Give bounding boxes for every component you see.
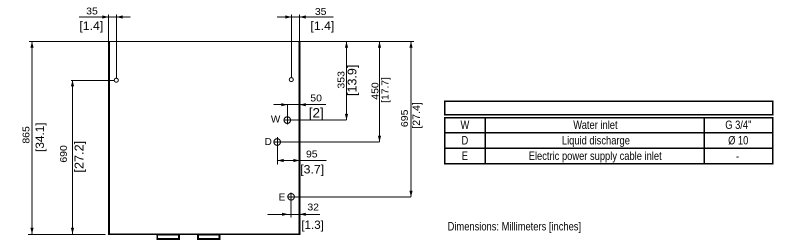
W inlet circle [284,117,291,124]
D inlet circle [274,139,281,146]
dim 690 connector [71,80,114,82]
dim 450 arrow bottom [378,136,381,142]
dim 35 left line [79,16,130,18]
svg-text:[13.9]: [13.9] [346,65,360,96]
svg-text:690: 690 [58,145,70,163]
dim 865 line [31,42,33,235]
dim 865 arrow bottom [30,228,33,234]
svg-text:Ø 10: Ø 10 [728,135,748,148]
dim 35 right arrow b [300,15,306,18]
dim 695 arrow top [409,42,412,48]
dim 865 arrow top [30,42,33,48]
dim 690 arrow bottom [71,228,74,234]
E inlet circle [288,194,295,201]
dim 95 arrow b [293,159,299,162]
dim 695 arrow bottom [409,191,412,197]
appliance left edge [108,41,110,235]
dim 35 left arrow b [117,15,123,18]
dim 50 line [274,104,327,106]
dim 353 arrow bottom [345,114,348,120]
dim 35 left arrow a [102,15,108,18]
svg-text:35: 35 [86,6,98,18]
dim 32 arrow a [282,213,288,216]
svg-text:[1.4]: [1.4] [79,19,103,33]
right cable inlet circle [289,78,293,82]
dim 450 line [379,42,381,143]
svg-text:D: D [462,135,469,148]
dim 32 line [268,213,320,215]
svg-text:[2]: [2] [309,105,324,120]
top extension line [29,41,414,43]
svg-text:Liquid discharge: Liquid discharge [562,135,630,148]
bottom-left extension line [28,234,106,236]
dim 50 arrow a [281,103,287,106]
dim 50 arrow b [300,103,306,106]
appliance bottom edge [108,233,301,235]
dim 353 arrow top [345,42,348,48]
W horizontal line [284,119,347,121]
svg-text:865: 865 [20,126,32,144]
dim 690 arrow top [71,80,74,86]
svg-text:E: E [279,192,286,203]
dim 95 line [277,160,326,162]
left cable line [116,14,118,78]
dim 353 line [346,42,348,121]
svg-text:[34.1]: [34.1] [33,122,47,152]
table column line 2 [703,118,705,164]
svg-text:E: E [462,150,468,163]
svg-text:Electric power supply cable in: Electric power supply cable inlet [529,150,662,163]
svg-text:Water inlet: Water inlet [573,119,617,132]
svg-text:[1.4]: [1.4] [310,19,334,33]
svg-text:32: 32 [307,202,319,214]
table column line 1 [484,118,486,164]
table row line 2 [445,147,773,149]
D vertical tick [277,137,279,165]
left cable inlet circle [114,78,118,82]
dim 690 line [72,80,74,234]
right edge upper extension [299,14,301,41]
svg-text:W: W [271,115,281,126]
svg-text:Dimensions: Millimeters [inche: Dimensions: Millimeters [inches] [448,220,582,233]
svg-text:35: 35 [315,6,327,18]
svg-text:W: W [460,119,469,132]
dim 35 right arrow a [285,15,291,18]
table header box [445,101,773,115]
appliance right edge [299,41,301,235]
svg-text:[27.2]: [27.2] [72,141,86,173]
table row line 1 [445,132,773,134]
right cable line [291,14,293,77]
W vertical tick [287,105,289,125]
svg-text:[17.7]: [17.7] [380,77,391,103]
dim 32 arrow b [300,213,306,216]
svg-text:[3.7]: [3.7] [300,162,324,176]
svg-text:95: 95 [306,148,318,160]
E horizontal line [287,196,411,198]
svg-text:695: 695 [399,109,411,127]
D horizontal line [273,141,379,143]
foot right [197,234,221,240]
dim 695 line [410,42,412,198]
table body box [445,118,773,164]
dim 450 arrow top [378,42,381,48]
svg-text:D: D [265,137,272,148]
svg-text:-: - [736,150,740,163]
left edge upper extension [108,14,110,41]
dim 35 right line [277,16,334,18]
E vertical tick [290,192,292,217]
svg-text:[27.4]: [27.4] [411,102,423,129]
svg-text:[1.3]: [1.3] [301,219,324,232]
foot left [156,234,180,240]
svg-text:G 3/4": G 3/4" [725,119,751,132]
svg-text:50: 50 [310,93,322,105]
dim 95 arrow a [278,159,284,162]
